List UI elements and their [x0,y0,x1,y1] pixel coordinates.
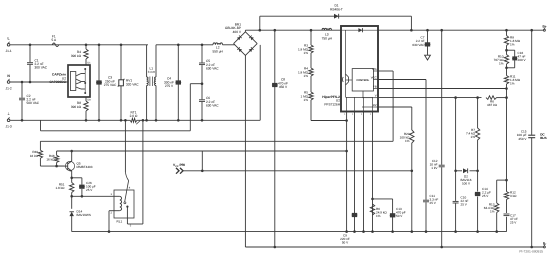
svg-text:300 VAC: 300 VAC [35,66,48,70]
svg-text:25 V: 25 V [86,188,93,192]
svg-text:275 VAC: 275 VAC [104,83,117,87]
svg-text:50 V: 50 V [396,214,403,218]
svg-text:400 V: 400 V [233,30,242,34]
svg-text:CAP200DG: CAP200DG [49,80,66,84]
svg-text:1%: 1% [490,210,495,214]
svg-text:50 V: 50 V [342,241,349,245]
svg-text:BAV19WS: BAV19WS [77,213,91,217]
svg-text:1%: 1% [376,214,381,218]
svg-text:BUS: BUS [540,136,547,140]
svg-text:25 V: 25 V [461,203,468,207]
svg-text:1%: 1% [471,135,476,139]
svg-text:2.0 Ω: 2.0 Ω [130,114,138,118]
svg-text:RL1: RL1 [117,220,123,224]
svg-text:1.8 kΩ: 1.8 kΩ [55,186,65,190]
svg-text:1%: 1% [510,43,515,47]
svg-text:VCC: VCC [371,75,377,79]
svg-text:FB: FB [373,84,377,88]
svg-text:200 V: 200 V [518,58,527,62]
svg-text:25 V: 25 V [482,194,489,198]
svg-text:25 V: 25 V [510,221,517,225]
svg-text:630 VAC: 630 VAC [206,104,219,108]
svg-text:100 V: 100 V [462,182,471,186]
svg-text:500 VAC: 500 VAC [27,101,40,105]
svg-text:320 VAC: 320 VAC [126,82,139,86]
svg-text:550 μH: 550 μH [213,49,224,53]
svg-text:25 V: 25 V [430,201,437,205]
svg-text:RV: RV [373,103,377,107]
svg-text:16 kΩ: 16 kΩ [46,157,55,161]
svg-text:630 VAC: 630 VAC [412,43,425,47]
svg-text:390 kΩ: 390 kΩ [71,105,82,109]
svg-text:275 V: 275 V [165,84,174,88]
svg-text:450 V: 450 V [279,85,288,89]
svg-text:487 kΩ: 487 kΩ [487,103,498,107]
svg-text:1%: 1% [405,139,410,143]
svg-text:B-: B- [543,241,546,245]
svg-text:750 μH: 750 μH [322,36,333,40]
svg-text:B+: B+ [543,25,547,29]
svg-text:1%: 1% [510,82,515,86]
svg-text:450 V: 450 V [518,137,527,141]
svg-text:PG: PG [373,67,377,71]
svg-text:1 kV: 1 kV [431,166,438,170]
svg-text:CONTROL: CONTROL [356,79,369,82]
svg-text:1%: 1% [304,74,309,78]
svg-text:J1-2: J1-2 [5,87,11,91]
svg-text:⏚: ⏚ [7,112,10,116]
svg-text:16 kΩ: 16 kΩ [30,154,39,158]
svg-text:1%: 1% [499,62,504,66]
svg-text:3 mH: 3 mH [148,70,155,74]
svg-text:V: V [375,94,377,98]
svg-text:J1-3: J1-3 [5,125,11,129]
svg-text:PI-7281-080915: PI-7281-080915 [519,250,543,254]
svg-text:1%: 1% [304,51,309,55]
svg-text:630 VAC: 630 VAC [206,67,219,71]
svg-text:3 kΩ: 3 kΩ [510,194,517,198]
svg-text:PFS7126H: PFS7126H [324,102,340,106]
svg-text:RS406-T: RS406-T [330,7,343,11]
svg-text:1%: 1% [304,98,309,102]
svg-text:L: L [8,37,10,41]
svg-text:MMBT4403: MMBT4403 [77,165,93,169]
svg-text:390 kΩ: 390 kΩ [71,54,82,58]
svg-text:J1-1: J1-1 [5,49,11,53]
